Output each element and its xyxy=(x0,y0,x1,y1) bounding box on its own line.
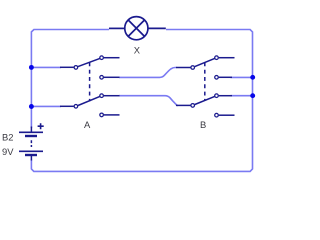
switch A throw 2b stub xyxy=(104,114,120,116)
switch B throw 1a stub xyxy=(219,57,235,59)
switch B pole 1 contact xyxy=(191,66,195,70)
svg-text:9V: 9V xyxy=(2,146,14,157)
battery B2 xyxy=(19,123,44,160)
node: left rail / switch A pole 2 junction xyxy=(29,104,34,109)
switch A pole 2 lead xyxy=(60,105,74,107)
battery bottom lead xyxy=(30,155,32,161)
svg-text:A: A xyxy=(84,119,91,130)
switch B throw 2b contact xyxy=(215,113,219,117)
switch B (DPDT) xyxy=(176,56,235,117)
wire: left rail to switch A pole 1 xyxy=(31,66,61,68)
node: right rail / switch B throw 2a junction xyxy=(250,93,255,98)
node: left rail / switch A pole 1 junction xyxy=(29,65,34,70)
switch B pole 2 lead xyxy=(176,104,191,106)
svg-text:X: X xyxy=(134,45,141,56)
lamp X xyxy=(109,17,166,40)
battery cell 1 long plate xyxy=(19,131,43,133)
switch B throw 2a stub xyxy=(219,95,232,97)
switch A gang link (dashed) xyxy=(89,62,91,101)
switch B lever 1 xyxy=(195,58,215,66)
switch B gang link (dashed) xyxy=(204,62,206,100)
battery cell 1 short plate xyxy=(25,135,37,137)
wire: left rail to switch A pole 2 xyxy=(31,105,61,107)
wire: switch A throw 1b to switch B pole 1 (jog up) xyxy=(119,68,177,78)
switch A pole 1 lead xyxy=(60,66,74,68)
wire: switch A throw 2a to switch B pole 2 (jog down) xyxy=(119,96,178,106)
switch A pole 1 contact xyxy=(74,66,78,70)
battery cell 2 short plate xyxy=(25,154,37,156)
battery cell 2 long plate xyxy=(19,150,43,152)
switch A throw 1b contact xyxy=(100,76,104,80)
switch A lever 2 xyxy=(78,96,100,105)
switch A pole 2 contact xyxy=(74,105,78,109)
svg-text:B: B xyxy=(200,119,206,130)
switch A throw 1a stub xyxy=(104,57,120,59)
switch B throw 1a contact xyxy=(215,56,219,60)
switch B throw 2a contact xyxy=(215,94,219,98)
battery plus sign xyxy=(38,123,44,129)
wire: top rail right, right rail, bottom rail to battery xyxy=(31,30,252,172)
switch B pole 1 lead xyxy=(176,67,191,69)
switch B throw 2b stub xyxy=(219,114,235,116)
switch A throw 2a stub xyxy=(104,95,120,97)
switch A throw 1b stub xyxy=(104,76,120,78)
node: right rail / switch B throw 1b junction xyxy=(250,75,255,80)
battery internal dashed link xyxy=(30,140,32,147)
wire: switch B throw 2a to right rail xyxy=(231,95,253,97)
switch B pole 2 contact xyxy=(191,104,195,108)
svg-text:B2: B2 xyxy=(2,132,13,143)
switch A throw 2a contact xyxy=(100,94,104,98)
switch A throw 1a contact xyxy=(100,56,104,60)
switch A (DPDT) xyxy=(60,56,120,117)
switch A throw 2b contact xyxy=(100,113,104,117)
switch B lever 2 xyxy=(195,96,215,104)
battery top lead xyxy=(30,127,32,133)
switch A lever 1 xyxy=(78,58,100,66)
wire: left rail and top rail left segment xyxy=(31,30,109,129)
switch B throw 1b contact xyxy=(215,76,219,80)
switch B throw 1b stub xyxy=(219,76,232,78)
wire: switch B throw 1b to right rail xyxy=(231,76,253,78)
